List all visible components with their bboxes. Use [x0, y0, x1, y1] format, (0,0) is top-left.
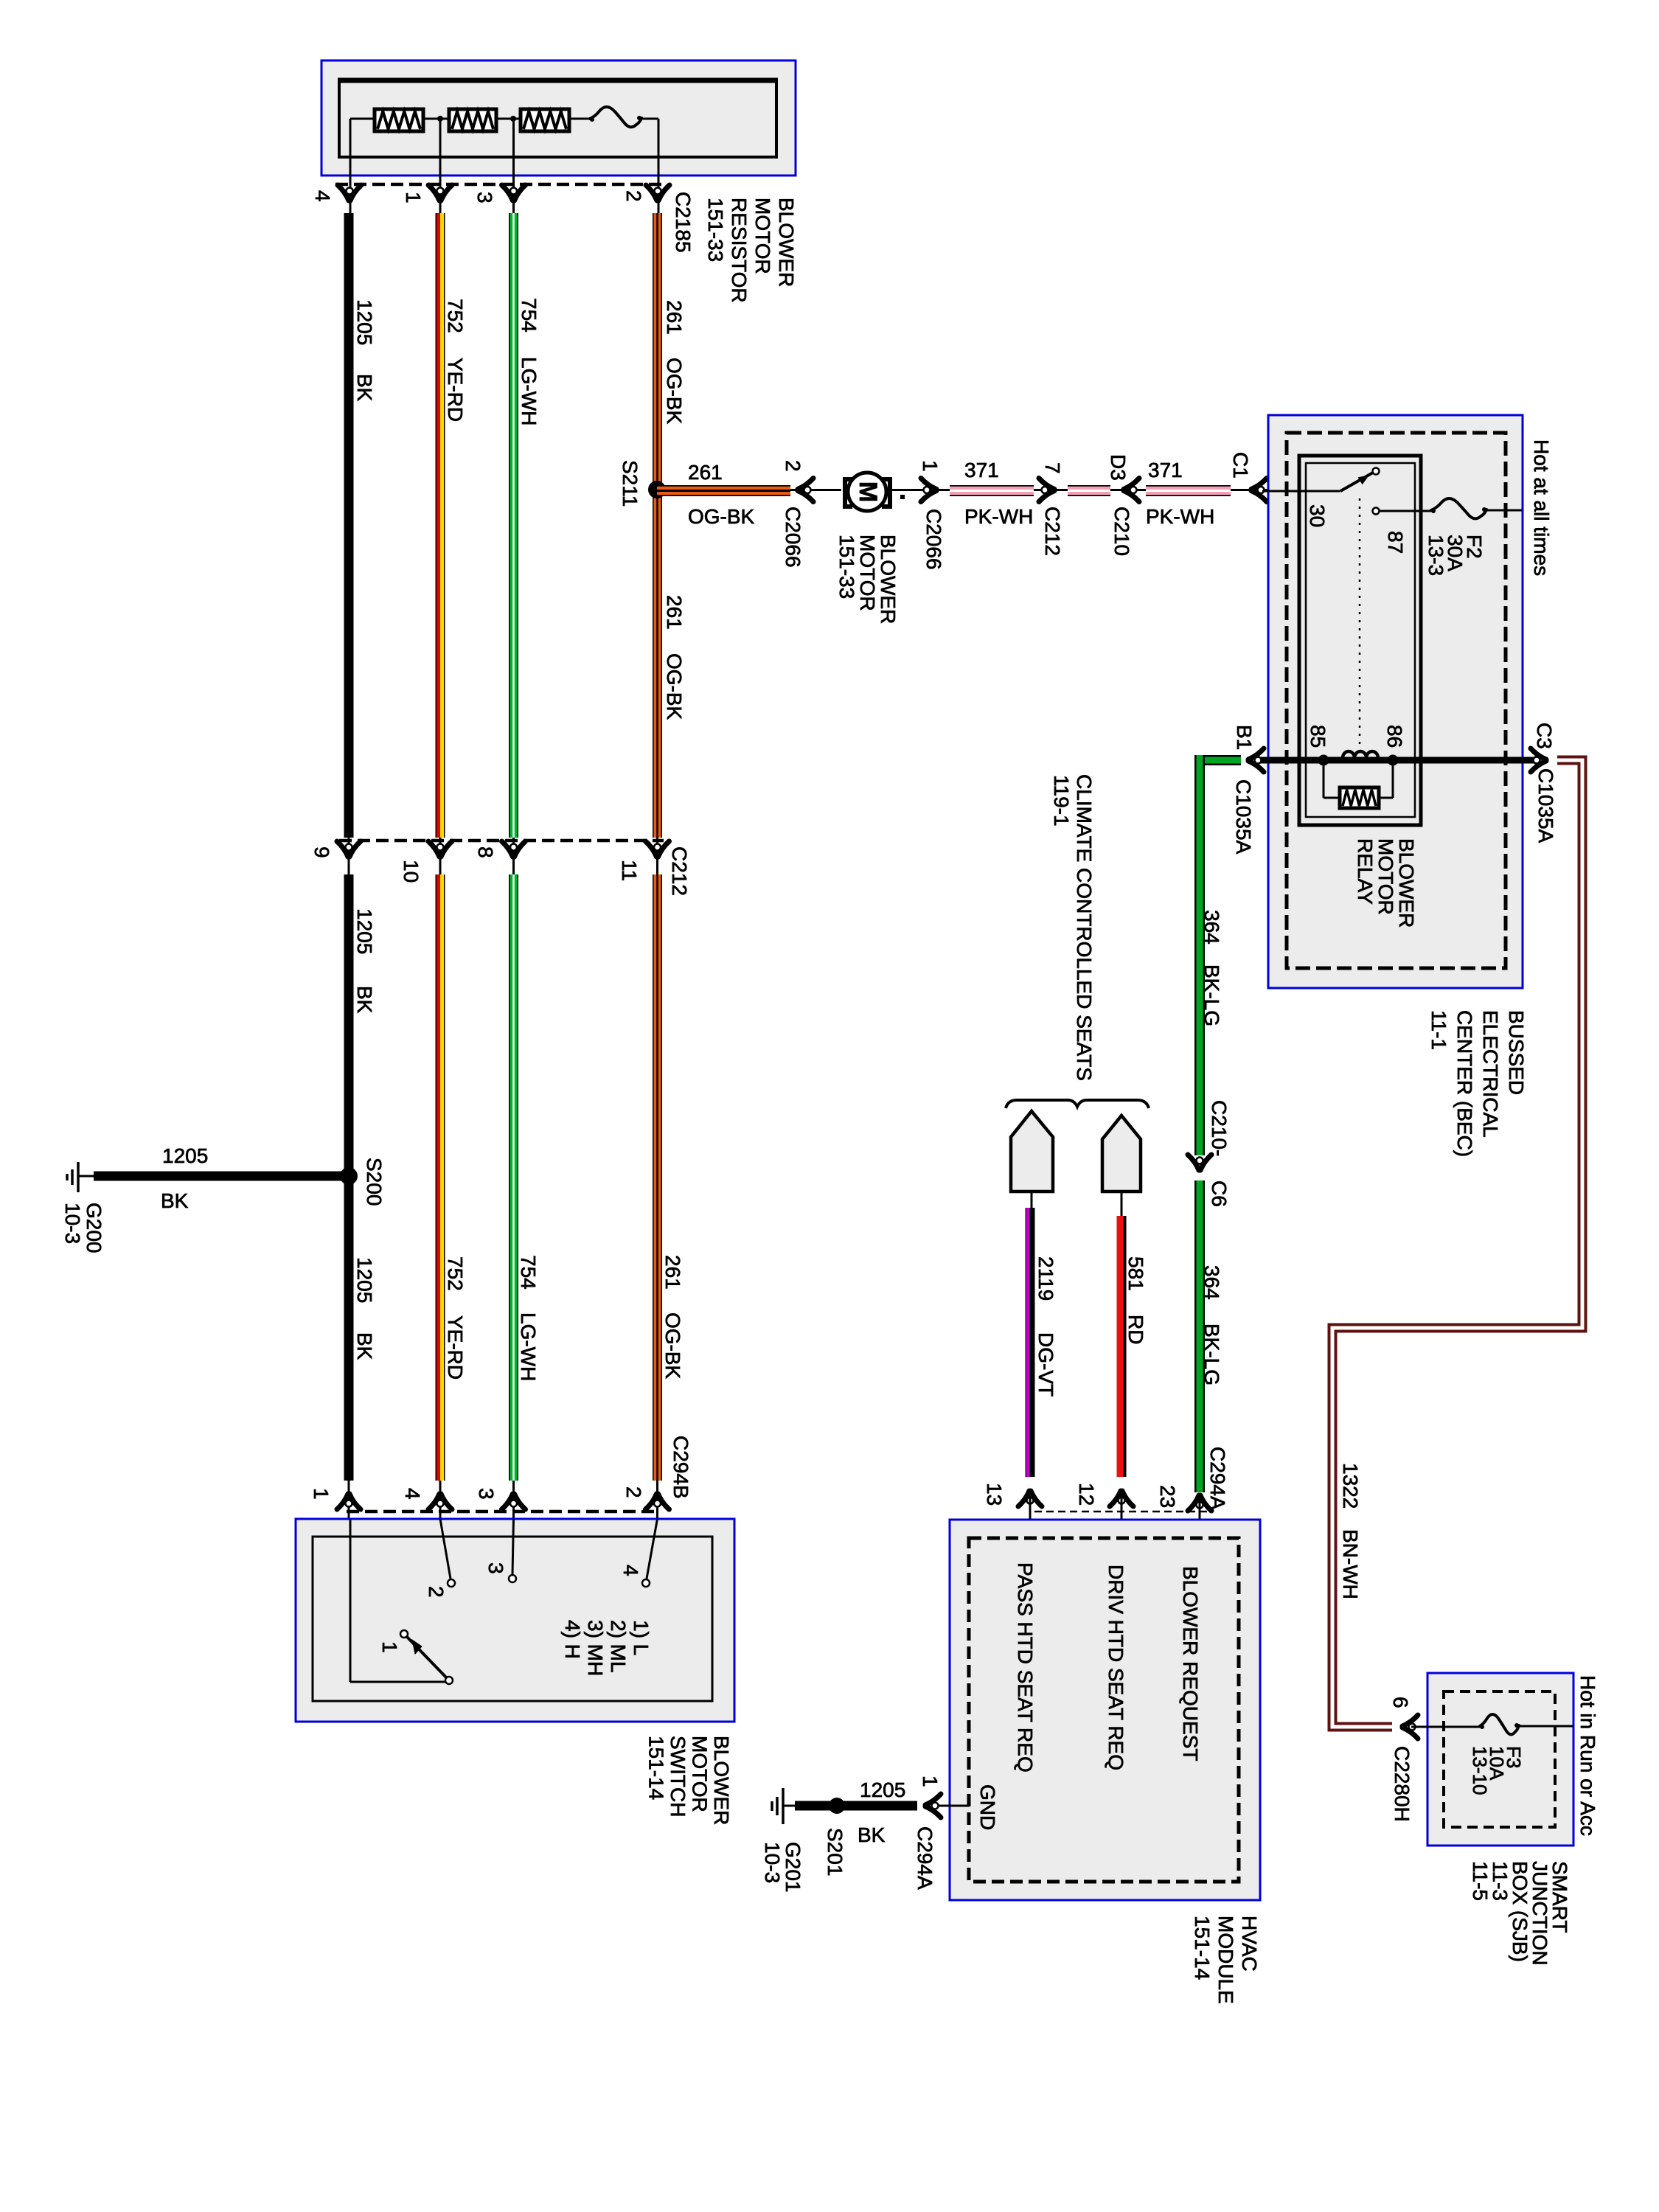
connector pin arrow 7 C212: [1039, 479, 1054, 502]
label 261 (below S211): [663, 595, 686, 630]
pin label 3 (C294B): [475, 1488, 498, 1500]
svg-text:C2066: C2066: [922, 509, 945, 570]
label BLOWER MOTOR RELAY: [1354, 838, 1418, 928]
connector pin arrow D3 C210: [1124, 479, 1139, 502]
pin label 4: [311, 190, 334, 202]
label G201 10-3: [761, 1842, 804, 1893]
connector pin arrow 1 C294A (GND): [925, 1794, 941, 1818]
svg-text:12: 12: [1075, 1483, 1098, 1506]
relay switch blade (30-87): [1340, 468, 1380, 492]
svg-text:CENTER (BEC): CENTER (BEC): [1453, 1010, 1476, 1157]
svg-text:OG-BK: OG-BK: [688, 505, 755, 528]
label 752 (lower): [444, 1256, 467, 1291]
wire thin pin23 into HVAC: [1199, 1495, 1201, 1538]
switch position legend: [561, 1620, 653, 1676]
svg-text:261: 261: [661, 1255, 684, 1290]
wire 364 BK-LG (C210 to HVAC): [1194, 1180, 1205, 1492]
svg-text:DG-VT: DG-VT: [1034, 1332, 1057, 1397]
svg-text:371: 371: [964, 459, 999, 481]
svg-text:261: 261: [663, 300, 686, 335]
wire 2119 DG-VT: [1028, 1208, 1030, 1477]
relay pin label 85: [1307, 725, 1329, 748]
wire 581 RD: [1120, 1216, 1121, 1477]
connector pin arrow 3 C294B: [502, 1494, 526, 1509]
label BLOWER REQUEST: [1179, 1566, 1202, 1761]
svg-text:8: 8: [474, 846, 497, 858]
svg-text:PASS HTD SEAT REQ: PASS HTD SEAT REQ: [1014, 1562, 1037, 1773]
svg-text:85: 85: [1307, 725, 1329, 748]
svg-text:BLOWER: BLOWER: [710, 1736, 733, 1825]
relay suppression resistor: [1324, 760, 1393, 808]
label 371 (right): [1148, 459, 1183, 481]
wire thin through C212 (orange): [656, 838, 658, 874]
svg-text:Hot in Run or Acc: Hot in Run or Acc: [1576, 1675, 1599, 1836]
label BN-WH: [1339, 1529, 1362, 1599]
svg-text:BLOWER: BLOWER: [775, 198, 798, 287]
svg-text:1205: 1205: [162, 1144, 208, 1167]
pin label 11: [618, 860, 641, 881]
pin label 8: [474, 846, 497, 858]
motor letter M: [854, 481, 882, 502]
label OG-BK (below S211): [663, 653, 686, 720]
label BUSSED ELECTRICAL CENTER (BEC) 11-1: [1427, 1010, 1528, 1157]
label BLOWER MOTOR RESISTOR 151-33: [704, 198, 798, 303]
relay pin label 87: [1384, 531, 1407, 554]
blower motor switch box: [296, 1519, 734, 1722]
connector pin arrow B1 C1035A: [1248, 748, 1264, 772]
svg-text:GND: GND: [976, 1784, 999, 1830]
connector pin arrow 12 C294A: [1110, 1491, 1133, 1506]
wire 371 PK-WH (motor to C212): [950, 485, 1034, 496]
label 1205 (mid): [353, 908, 376, 954]
svg-text:PK-WH: PK-WH: [1146, 505, 1214, 528]
wire thin pin12 into HVAC: [1121, 1491, 1123, 1538]
HVAC inner dashed border: [969, 1538, 1239, 1882]
svg-text:10-3: 10-3: [761, 1842, 784, 1883]
label HVAC MODULE 151-14: [1191, 1916, 1261, 2004]
connector pin arrow 1 C2066: [921, 479, 936, 502]
label S211: [619, 460, 641, 507]
svg-text:G200: G200: [83, 1203, 105, 1253]
connector label C210-: [1208, 1100, 1231, 1156]
label 754 (lower): [517, 1255, 540, 1290]
connector label C294A (pin23): [1206, 1447, 1229, 1510]
svg-text:87: 87: [1384, 531, 1407, 554]
svg-text:LG-WH: LG-WH: [517, 1312, 540, 1381]
svg-text:7: 7: [1041, 462, 1064, 474]
motor polarity dot: [900, 495, 905, 499]
wire stub pass seat: [1031, 1192, 1033, 1208]
label LG-WH (lower): [517, 1312, 540, 1381]
label OG-BK (branch): [688, 505, 755, 528]
connector label C2066 (motor side): [782, 507, 804, 568]
junction S211: [648, 481, 666, 498]
label BK (ground branch): [161, 1189, 189, 1212]
label BK-LG (upper): [1200, 964, 1223, 1026]
svg-text:3: 3: [484, 1562, 507, 1574]
label F2 30A 13-3: [1425, 535, 1486, 576]
svg-text:151-14: 151-14: [645, 1736, 668, 1800]
svg-text:13-3: 13-3: [1425, 535, 1447, 576]
svg-text:1322: 1322: [1339, 1463, 1362, 1509]
pin label 4 (C294B): [401, 1488, 424, 1500]
connector line C294A (dashed): [1034, 1511, 1210, 1513]
wire 1205 BK (GND jumper): [795, 1801, 917, 1811]
svg-text:CLIMATE CONTROLLED SEATS: CLIMATE CONTROLLED SEATS: [1073, 774, 1096, 1081]
label RD: [1124, 1315, 1147, 1344]
svg-text:C6: C6: [1208, 1180, 1231, 1207]
wire thin motor to pin 1 C2066: [892, 489, 950, 491]
svg-text:752: 752: [444, 1256, 467, 1291]
svg-text:2: 2: [622, 190, 645, 202]
svg-text:11: 11: [618, 860, 641, 881]
connector label C294B: [669, 1436, 692, 1499]
relay coil junction 85-side: [1318, 755, 1329, 766]
svg-text:BK: BK: [353, 1332, 376, 1360]
label LG-WH (upper): [518, 357, 540, 425]
svg-text:2) ML: 2) ML: [607, 1620, 630, 1673]
wire thin to relay pin C1: [1231, 489, 1268, 491]
svg-text:C210-: C210-: [1208, 1100, 1231, 1156]
connector label C1035A (left): [1232, 779, 1255, 855]
svg-text:S211: S211: [619, 460, 641, 507]
svg-text:BLOWER: BLOWER: [877, 535, 900, 624]
label G200 10-3: [61, 1203, 105, 1253]
label 364 (upper): [1200, 910, 1223, 945]
relay coil junction 86-side: [1388, 755, 1399, 766]
connector pin arrow 1 C2185: [428, 185, 452, 201]
svg-text:C2066: C2066: [782, 507, 804, 568]
connector pin arrow 2 C2185: [646, 185, 669, 201]
resistor element 1: [375, 109, 423, 131]
connector label C212: [668, 846, 691, 896]
svg-text:754: 754: [518, 298, 540, 333]
wire 364 BK-LG (horizontal stub): [1195, 755, 1241, 765]
wire thin GND out of HVAC: [934, 1805, 969, 1807]
wire thin through C210: [1110, 489, 1146, 491]
label 364 (lower): [1200, 1265, 1223, 1300]
switch wire pin4 to contact 2: [440, 1519, 455, 1587]
svg-text:DRIV HTD SEAT REQ: DRIV HTD SEAT REQ: [1105, 1565, 1127, 1770]
svg-text:MOTOR: MOTOR: [689, 1736, 712, 1812]
svg-text:MODULE: MODULE: [1214, 1916, 1237, 2004]
svg-text:2119: 2119: [1034, 1256, 1057, 1301]
label BK (upper): [353, 374, 376, 402]
wire fuse F3 to hot feed: [1519, 1725, 1573, 1728]
pin label 23: [1156, 1485, 1179, 1508]
svg-text:S200: S200: [363, 1158, 386, 1206]
svg-text:4: 4: [401, 1488, 424, 1500]
connector line C2185 (dashed): [335, 183, 664, 187]
svg-text:1205: 1205: [353, 908, 376, 954]
wire drop pin1: [439, 119, 442, 215]
junction S201: [829, 1798, 845, 1814]
connector pin arrow 8 C212: [502, 841, 526, 857]
blower motor resistor box (component box): [321, 60, 796, 175]
svg-text:1205: 1205: [860, 1778, 905, 1801]
label YE-RD (lower): [444, 1315, 467, 1380]
wire thin through C212: [1034, 489, 1068, 491]
pin label C1: [1229, 452, 1252, 479]
connector pin arrow C1: [1251, 479, 1267, 502]
svg-text:119-1: 119-1: [1050, 775, 1073, 827]
svg-text:364: 364: [1200, 910, 1223, 945]
label PASS HTD SEAT REQ: [1014, 1562, 1037, 1773]
svg-text:C2185: C2185: [672, 192, 695, 253]
smart junction box (SJB): [1427, 1673, 1573, 1846]
pin label 9: [310, 846, 333, 858]
label 752 (upper): [444, 299, 467, 333]
svg-text:ELECTRICAL: ELECTRICAL: [1479, 1010, 1502, 1138]
svg-text:1: 1: [919, 460, 942, 472]
connector label C294A (GND): [914, 1826, 936, 1890]
wire thin through C212 (green): [512, 838, 515, 874]
wire 752 YE-RD (upper segment): [440, 213, 442, 838]
svg-text:151-33: 151-33: [835, 535, 858, 599]
svg-text:9: 9: [310, 846, 333, 858]
wire 752 YE-RD (lower segment): [440, 874, 442, 1481]
HVAC module box: [950, 1520, 1260, 1900]
svg-text:752: 752: [444, 299, 467, 333]
svg-text:BUSSED: BUSSED: [1505, 1010, 1528, 1095]
label 1322: [1339, 1463, 1362, 1509]
connector label C212 (inline): [1041, 507, 1064, 556]
relay pin label 30: [1306, 504, 1329, 527]
connector label C2185: [672, 192, 695, 253]
svg-text:151-14: 151-14: [1191, 1916, 1214, 1980]
svg-text:23: 23: [1156, 1485, 1179, 1508]
svg-text:364: 364: [1200, 1265, 1223, 1300]
switch wire pin3 to contact 3: [509, 1519, 516, 1582]
label PK-WH (right): [1146, 505, 1214, 528]
svg-text:C212: C212: [668, 846, 691, 896]
svg-text:10-3: 10-3: [61, 1203, 84, 1244]
label 261 (lower): [661, 1255, 684, 1290]
connector pin arrow 2 C2066: [798, 479, 813, 502]
svg-text:3) MH: 3) MH: [584, 1620, 607, 1676]
svg-text:13: 13: [983, 1483, 1006, 1506]
svg-text:1: 1: [378, 1641, 401, 1653]
connector pin arrow 6 C2280H: [1402, 1715, 1418, 1739]
pin label 12: [1075, 1483, 1098, 1506]
svg-text:G201: G201: [782, 1842, 804, 1893]
label YE-RD (upper): [444, 358, 467, 422]
connector pin arrow 4 C294B: [428, 1494, 452, 1509]
wire thin into pin 2 C2066: [790, 489, 841, 491]
svg-text:C212: C212: [1041, 507, 1064, 556]
label F3 10A 13-10: [1469, 1746, 1525, 1795]
BEC inner dashed border: [1287, 433, 1506, 968]
svg-text:C294A: C294A: [914, 1826, 936, 1890]
label 1205 (upper): [353, 299, 376, 345]
wire 371 PK-WH (C210 to BEC C1): [1146, 485, 1231, 496]
label CLIMATE CONTROLLED SEATS 119-1: [1050, 774, 1096, 1081]
pin label 3: [473, 192, 496, 204]
label BK-LG (lower): [1200, 1324, 1223, 1385]
wire 1205 BK (upper segment): [344, 213, 354, 838]
wire 754 LG-WH (upper segment): [509, 213, 518, 838]
svg-text:BN-WH: BN-WH: [1339, 1529, 1362, 1599]
svg-text:D3: D3: [1107, 454, 1130, 481]
relay pin label 86: [1383, 725, 1406, 748]
wire 364 BK-LG (BEC to C210-C6): [1194, 755, 1205, 1155]
svg-text:BK-LG: BK-LG: [1200, 964, 1223, 1026]
wire drop pin4 (into connector C2185): [349, 119, 352, 215]
svg-text:S201: S201: [824, 1828, 846, 1876]
svg-text:RESISTOR: RESISTOR: [728, 198, 751, 303]
svg-text:OG-BK: OG-BK: [663, 358, 686, 425]
wire 1205 BK (ground branch): [94, 1172, 349, 1181]
svg-text:10: 10: [400, 860, 422, 883]
connector pin arrow 23 C294A: [1188, 1495, 1211, 1511]
wire C1 into relay switch: [1262, 490, 1340, 493]
svg-text:HVAC: HVAC: [1238, 1916, 1261, 1972]
svg-text:Hot at all times: Hot at all times: [1530, 439, 1553, 576]
brace over seat connectors: [1006, 1100, 1149, 1108]
pin label C3: [1533, 723, 1556, 749]
svg-text:BK: BK: [353, 374, 376, 402]
wire 261 OG-BK (lower segment): [653, 874, 662, 1481]
pin label 2 (C294B): [622, 1486, 645, 1498]
svg-text:RELAY: RELAY: [1354, 838, 1377, 905]
svg-text:11-1: 11-1: [1427, 1010, 1450, 1050]
label BK (mid): [353, 986, 376, 1014]
junction S200: [340, 1167, 358, 1185]
connector pin arrow 9 C212: [337, 841, 361, 857]
svg-text:30: 30: [1306, 504, 1329, 527]
switch wire pin2 to contact 4: [642, 1519, 658, 1587]
switch contact label 3: [484, 1562, 507, 1574]
switch wire pin1 to wiper: [350, 1519, 447, 1682]
label BLOWER MOTOR 151-33: [835, 535, 900, 624]
svg-text:1: 1: [310, 1488, 333, 1500]
connector pin arrow C3 C1035A: [1531, 748, 1546, 772]
label BLOWER MOTOR SWITCH 151-14: [645, 1736, 734, 1825]
wire thin pin13 into HVAC: [1029, 1491, 1032, 1538]
label Hot in Run or Acc: [1576, 1675, 1599, 1836]
svg-text:4: 4: [311, 190, 334, 202]
connector pin arrow 1 C294B: [337, 1494, 361, 1509]
fuse F3 element: [1480, 1714, 1519, 1734]
svg-text:YE-RD: YE-RD: [444, 1315, 467, 1380]
wire 261 OG-BK (upper segment): [653, 213, 662, 838]
svg-text:SWITCH: SWITCH: [667, 1736, 689, 1817]
label 371 (left): [964, 459, 999, 481]
label GND: [976, 1784, 999, 1830]
wire drop pin2: [658, 119, 660, 215]
pin label 1: [402, 192, 425, 204]
pin label 1 (C294B): [310, 1488, 333, 1500]
label 261 (upper): [663, 300, 686, 335]
connector pin arrow 4 C2185: [338, 185, 361, 201]
svg-text:1205: 1205: [353, 1257, 376, 1303]
svg-text:86: 86: [1383, 725, 1406, 748]
connector pin arrow 10 C212: [428, 841, 452, 857]
svg-text:151-33: 151-33: [704, 198, 727, 262]
svg-text:11-5: 11-5: [1469, 1861, 1492, 1901]
wire thin through C294B (green): [512, 1481, 515, 1519]
svg-text:13-10: 13-10: [1469, 1746, 1491, 1795]
svg-text:2: 2: [425, 1586, 448, 1598]
svg-text:RD: RD: [1124, 1315, 1147, 1344]
svg-text:BLOWER REQUEST: BLOWER REQUEST: [1179, 1566, 1202, 1761]
svg-text:BK-LG: BK-LG: [1200, 1324, 1223, 1385]
label SMART JUNCTION BOX (SJB) 11-3 11-5: [1469, 1861, 1571, 1966]
svg-text:3: 3: [475, 1488, 498, 1500]
svg-text:MOTOR: MOTOR: [856, 535, 879, 611]
svg-text:BK: BK: [161, 1189, 189, 1212]
thermal fuse (wavy limiter): [590, 107, 641, 127]
svg-text:C1: C1: [1229, 452, 1252, 479]
svg-text:C1035A: C1035A: [1232, 779, 1255, 855]
pin label 7: [1041, 462, 1064, 474]
fuse F2 element: [1431, 498, 1486, 518]
svg-text:C210: C210: [1110, 507, 1133, 556]
svg-text:C2280H: C2280H: [1391, 1746, 1413, 1822]
pin label 6: [1389, 1697, 1412, 1708]
svg-text:BK: BK: [858, 1823, 886, 1846]
pin label 1 (C2066): [919, 460, 942, 472]
svg-text:261: 261: [688, 461, 723, 484]
wire thin through C212 (yellow): [439, 838, 442, 874]
pin label D3: [1107, 454, 1130, 481]
svg-text:C3: C3: [1533, 723, 1556, 749]
label PK-WH (left): [964, 505, 1033, 528]
pin label B1: [1233, 725, 1256, 750]
label DRIV HTD SEAT REQ: [1105, 1565, 1127, 1770]
connector label C2066 (harness side): [922, 509, 945, 570]
svg-text:754: 754: [517, 1255, 540, 1290]
connector pin arrow 13 C294A: [1018, 1491, 1042, 1506]
svg-text:LG-WH: LG-WH: [518, 357, 540, 425]
wire 1205 BK (mid segment): [344, 874, 354, 1481]
svg-text:1: 1: [919, 1775, 942, 1787]
pin label 2: [622, 190, 645, 202]
svg-text:C294B: C294B: [669, 1436, 692, 1499]
svg-text:1205: 1205: [353, 299, 376, 345]
pin label 2 (C2066): [782, 460, 804, 472]
relay actuation dotted link: [1359, 498, 1361, 749]
svg-text:M: M: [854, 481, 882, 502]
svg-text:B1: B1: [1233, 725, 1256, 750]
wire 371 PK-WH (C212 to C210): [1068, 485, 1110, 496]
label OG-BK (upper): [663, 358, 686, 425]
ground G201: [772, 1788, 795, 1824]
connector label C2280H: [1391, 1746, 1413, 1822]
wire 754 LG-WH (lower segment): [509, 874, 518, 1481]
relay coil wire (85-86 feed): [1255, 757, 1537, 764]
wire drop pin3: [512, 119, 515, 215]
switch contact label 4: [619, 1565, 642, 1576]
label DG-VT: [1034, 1332, 1057, 1397]
wire 1322 BN-WH (SJB feed): [1332, 760, 1582, 1727]
connector label C210: [1110, 507, 1133, 556]
svg-text:1) L: 1) L: [630, 1620, 653, 1655]
resistor element 2: [449, 109, 496, 131]
pin label 10: [400, 860, 422, 883]
svg-text:3: 3: [473, 192, 496, 204]
blower motor M1 (motor symbol): [845, 473, 890, 511]
svg-text:MOTOR: MOTOR: [1374, 838, 1397, 915]
svg-text:OG-BK: OG-BK: [663, 653, 686, 720]
pin label 1 (GND): [919, 1775, 942, 1787]
connector line C294B (dashed): [347, 1510, 660, 1514]
label 581: [1124, 1256, 1147, 1291]
relay coil windings: [1343, 751, 1378, 758]
ground G200: [67, 1162, 94, 1192]
label 1205 (GND): [860, 1778, 905, 1801]
wire thin through C294B (orange): [656, 1481, 658, 1519]
